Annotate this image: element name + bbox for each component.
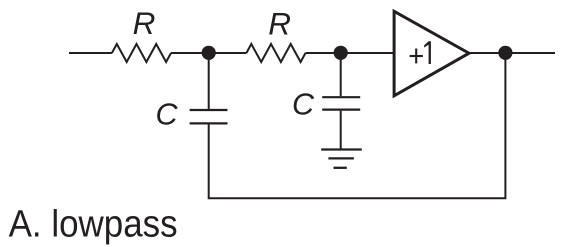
svg-text:R: R: [133, 5, 156, 41]
svg-text:C: C: [292, 88, 315, 122]
svg-text:C: C: [156, 98, 179, 132]
svg-text:R: R: [268, 5, 291, 41]
svg-text:A. lowpass: A. lowpass: [9, 203, 178, 246]
